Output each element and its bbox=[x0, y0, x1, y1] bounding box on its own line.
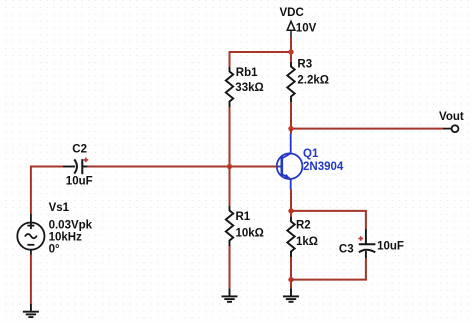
wire collector red stub bbox=[290, 129, 292, 134]
svg-text:2.2kΩ: 2.2kΩ bbox=[297, 74, 329, 86]
ground under Vs1 bbox=[23, 304, 39, 317]
wire R1 bottom to ground bbox=[229, 246, 231, 288]
wire VCC rail bbox=[230, 51, 292, 53]
svg-text:C2: C2 bbox=[72, 144, 87, 156]
svg-text:R1: R1 bbox=[236, 211, 251, 223]
svg-text:C3: C3 bbox=[339, 243, 354, 255]
svg-text:10kHz: 10kHz bbox=[49, 232, 82, 244]
VDC power arrow symbol bbox=[287, 21, 295, 37]
svg-text:R3: R3 bbox=[297, 58, 312, 70]
svg-text:Rb1: Rb1 bbox=[236, 67, 258, 79]
svg-text:10kΩ: 10kΩ bbox=[236, 227, 264, 239]
ground under R1 bbox=[222, 288, 238, 302]
wire R3 bottom to collector node bbox=[290, 102, 292, 129]
svg-text:1kΩ: 1kΩ bbox=[296, 236, 318, 248]
svg-text:10uF: 10uF bbox=[66, 176, 93, 188]
resistor R1 bbox=[226, 206, 233, 246]
sine squiggle bbox=[25, 234, 37, 238]
capacitor C3 bbox=[359, 229, 376, 258]
C3 polarity plus bbox=[358, 236, 363, 241]
source Vs1 bbox=[17, 214, 44, 255]
svg-text:VDC: VDC bbox=[280, 7, 304, 19]
svg-text:2N3904: 2N3904 bbox=[303, 161, 344, 173]
wire C2 left to Vs1 bbox=[31, 167, 63, 215]
junction at collector node bbox=[288, 126, 293, 131]
wire R3 top lead bbox=[290, 52, 292, 62]
wire C3 bottom back to R2 ground node bbox=[291, 258, 366, 280]
Vout pin stub bbox=[443, 128, 451, 130]
resistor R3 bbox=[287, 62, 294, 102]
capacitor C2 bbox=[63, 159, 88, 174]
junction emitter node bbox=[288, 208, 293, 213]
resistor Rb1 bbox=[226, 67, 233, 107]
minus sign inside bottom bbox=[27, 244, 34, 246]
C2 polarity plus bbox=[84, 158, 89, 163]
resistor R2 bbox=[287, 217, 294, 257]
wire emitter node to C3 top bbox=[291, 211, 366, 229]
wire collector node to Vout bbox=[291, 128, 443, 130]
wire Rb1 bottom to base node bbox=[229, 107, 231, 167]
svg-text:0°: 0° bbox=[49, 243, 60, 255]
svg-text:0.03Vpk: 0.03Vpk bbox=[49, 220, 93, 232]
wire Vs1 bottom to ground bbox=[30, 255, 32, 304]
svg-text:10uF: 10uF bbox=[377, 241, 404, 253]
wire base node down to R1 bbox=[229, 167, 231, 207]
junction base / Rb1 / R1 bbox=[227, 164, 232, 169]
wire emitter blue-red stub down to emitter node bbox=[290, 190, 292, 211]
ground under R2 bbox=[283, 288, 299, 302]
svg-text:Vs1: Vs1 bbox=[49, 202, 70, 214]
wire emitter node to R2 bbox=[290, 211, 292, 217]
wire VDC lead bbox=[290, 37, 292, 52]
Vout terminal circle bbox=[452, 125, 459, 132]
svg-text:Q1: Q1 bbox=[303, 148, 319, 160]
wire Rb1 top lead bbox=[229, 51, 231, 67]
svg-text:10V: 10V bbox=[296, 23, 317, 35]
svg-text:R2: R2 bbox=[296, 219, 311, 231]
junction at VDC / rail / R3 bbox=[288, 49, 293, 54]
wire base net from C2 to Q1 bbox=[88, 166, 277, 168]
plus sign inside top bbox=[27, 225, 34, 227]
svg-text:Vout: Vout bbox=[439, 111, 464, 123]
svg-text:33kΩ: 33kΩ bbox=[235, 82, 263, 94]
junction R2 bottom / C3 return bbox=[288, 277, 293, 282]
wire R2 bottom to ground node bbox=[290, 257, 292, 288]
transistor Q1 2N3904 bbox=[277, 134, 303, 190]
